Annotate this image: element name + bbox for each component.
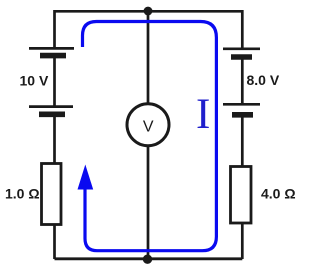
- wire right: [241, 10, 244, 259]
- voltmeter V: [127, 104, 169, 146]
- svg-text:10 V: 10 V: [20, 72, 49, 88]
- resistor R2: [231, 167, 252, 224]
- current arrow head: [78, 165, 94, 190]
- node bottom junction: [143, 255, 152, 264]
- svg-text:1.0 Ω: 1.0 Ω: [5, 185, 40, 201]
- wire left: [53, 10, 56, 259]
- wire bottom: [55, 257, 243, 260]
- wire top: [55, 10, 243, 13]
- battery B1 cell 2: [29, 107, 73, 115]
- wire middle: [147, 11, 150, 258]
- svg-text:4.0 Ω: 4.0 Ω: [261, 186, 296, 202]
- current loop wire (blue): [83, 22, 217, 251]
- svg-text:8.0 V: 8.0 V: [247, 72, 280, 88]
- svg-text:I: I: [196, 91, 210, 138]
- battery B1 cell 1: [29, 48, 74, 55]
- battery B2 cell 1: [223, 49, 260, 57]
- resistor R1: [42, 164, 62, 225]
- node top junction: [144, 7, 153, 16]
- svg-text:V: V: [143, 118, 154, 135]
- battery B2 cell 2: [223, 104, 260, 115]
